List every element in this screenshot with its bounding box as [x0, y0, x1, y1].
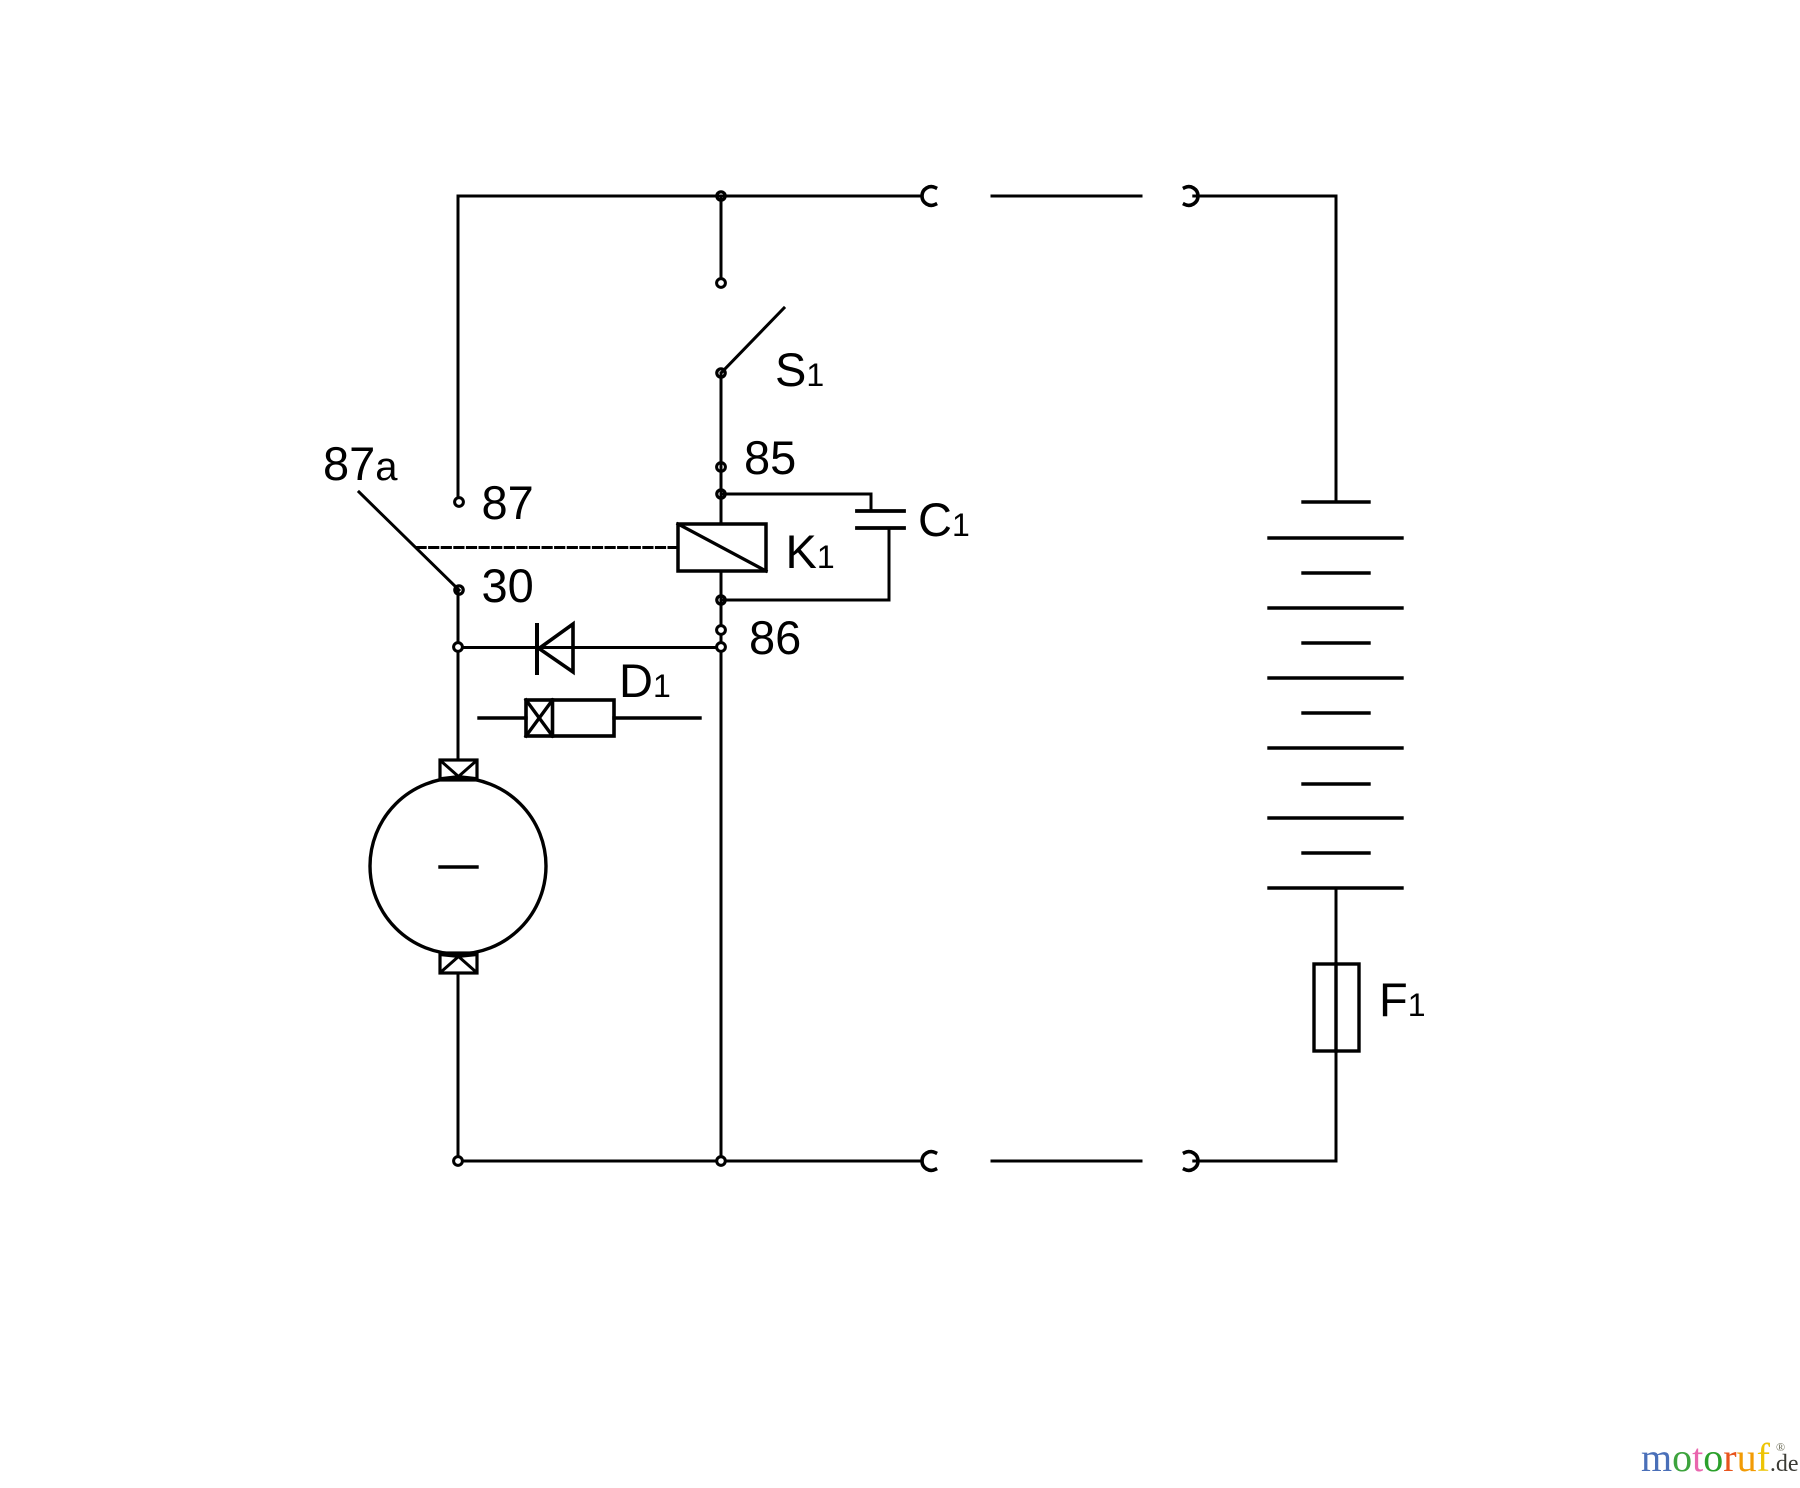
wire top rail left segment: [458, 195, 922, 198]
node junction capacitor top branch: [717, 490, 725, 498]
terminal circle 86 lower / diode node: [717, 643, 726, 652]
svg-text:87: 87: [482, 476, 534, 529]
wire capacitor branch top: [721, 494, 871, 511]
wire bottom rail right segment: [1194, 1160, 1336, 1163]
wire battery to fuse: [1335, 888, 1338, 964]
terminal circle 30: [455, 586, 463, 594]
mechanical link dashed line: [417, 546, 678, 549]
node junction capacitor bottom branch: [717, 596, 725, 604]
wire fuse to bottom rail: [1335, 1051, 1338, 1161]
wire bottom rail left segment: [462, 1160, 922, 1163]
terminal circle 86 upper: [717, 626, 726, 635]
wire switch feed from top junction: [720, 196, 723, 278]
D1 suppressor body: [526, 700, 614, 736]
wire diode row horizontal: [458, 646, 721, 649]
motor M1 bottom brush: [440, 953, 477, 973]
wire motor branch down from diode node: [457, 647, 460, 760]
wire motor bottom to bottom rail terminal: [457, 973, 460, 1156]
D1 suppressor divider: [551, 700, 555, 736]
wire relay node through 86 connector circles to bottom rail: [720, 600, 723, 1161]
wire bottom rail floating middle segment: [992, 1160, 1141, 1163]
battery G1 top terminal bar: [1303, 500, 1369, 503]
wire terminal 30 down to diode node: [457, 590, 460, 647]
wire relay coil bottom to node: [720, 571, 723, 600]
motor M1 minus sign: [440, 865, 477, 868]
terminal circle switch pivot: [717, 369, 725, 377]
fuse F1 body: [1314, 964, 1359, 1051]
terminal circle switch top: [717, 279, 726, 288]
svg-text:30: 30: [482, 559, 534, 612]
svg-text:85: 85: [744, 431, 796, 484]
wire switch to relay coil top through 85 terminal: [720, 373, 723, 524]
diode V1 cathode bar: [535, 625, 539, 673]
node junction bottom rail: [717, 1157, 726, 1166]
diode V1 triangle: [539, 624, 573, 672]
svg-text:86: 86: [749, 611, 801, 664]
connector half bottom right ")": [1185, 1152, 1198, 1171]
capacitor C1 top plate: [857, 509, 904, 513]
terminal circle 85: [717, 463, 726, 472]
D1 suppressor X: [526, 700, 553, 736]
svg-text:87a: 87a: [323, 437, 398, 490]
wire left branch vertical 87 drop: [457, 196, 460, 497]
node junction top rail: [717, 192, 725, 200]
terminal circle 87: [455, 498, 464, 507]
connector half top left "(": [922, 187, 935, 206]
relay coil K1 box: [678, 524, 766, 571]
wire top rail right segment: [1194, 195, 1336, 198]
svg-text:®: ®: [1776, 1440, 1785, 1454]
terminal circle bottom left motor: [454, 1157, 463, 1166]
motor M1 body circle: [370, 778, 546, 954]
battery G1 cell plates: [1269, 536, 1402, 539]
connector half top right ")": [1185, 187, 1198, 206]
wire top rail floating middle segment: [992, 195, 1141, 198]
relay contact arm 30-87a: [359, 492, 459, 590]
capacitor C1 bottom plate: [857, 526, 904, 530]
relay coil K1 diagonal: [678, 524, 766, 571]
motor M1 top brush: [440, 760, 477, 780]
wire capacitor branch bottom: [721, 528, 889, 600]
wire fuse F1 through-line: [1334, 964, 1337, 1051]
D1 suppressor right lead: [614, 716, 700, 719]
D1 suppressor symbol left lead: [479, 716, 526, 719]
switch S1 blade: [722, 308, 784, 372]
wire right branch down to battery: [1335, 196, 1338, 502]
node junction diode row left: [454, 643, 463, 652]
connector half bottom left "(": [922, 1152, 935, 1171]
